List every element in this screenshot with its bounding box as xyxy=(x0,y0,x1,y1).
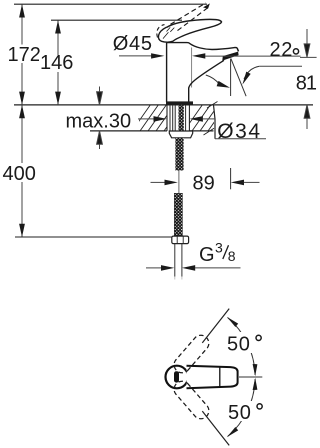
flexible hose xyxy=(174,193,183,236)
node 22deg leader curve xyxy=(244,66,259,79)
wire spout level line xyxy=(205,55,301,57)
arrow 22deg leader xyxy=(242,72,250,85)
svg-text:50: 50 xyxy=(228,402,251,424)
lever handle top edge xyxy=(166,19,221,27)
dashed lever position up xyxy=(174,335,209,373)
dashed raised lever line 1 xyxy=(171,3,206,24)
node nut facets xyxy=(177,236,183,243)
arrow D34 right xyxy=(190,116,203,122)
hex nut G3/8 xyxy=(172,236,189,244)
node shank verticals in hole xyxy=(170,105,186,131)
dimension 172 line upper xyxy=(21,4,23,44)
svg-text:Ø45: Ø45 xyxy=(113,33,153,55)
arrow G38 left xyxy=(161,265,174,271)
aerator xyxy=(222,52,238,61)
arrow 81 bottom xyxy=(304,105,310,129)
dimension 89 left shaft xyxy=(151,181,165,183)
wire counter right break edge xyxy=(214,105,216,139)
arrow 400 top xyxy=(19,105,25,118)
wire counter bottom line right xyxy=(189,130,213,132)
arrow D34 left xyxy=(154,116,167,122)
arrow 89 right xyxy=(231,180,244,186)
svg-text:3: 3 xyxy=(215,240,223,256)
wire D34 label underline xyxy=(215,138,266,140)
label 50deg bottom xyxy=(227,401,267,421)
node body right extension line xyxy=(191,48,193,88)
arrow swivel arc down inner xyxy=(253,378,258,390)
node swivel ray up xyxy=(202,309,229,343)
svg-text:22: 22 xyxy=(270,39,293,61)
arrow 172 bottom xyxy=(19,92,25,105)
wire top reference line (172 level) xyxy=(14,3,207,5)
node swivel arc up xyxy=(228,318,256,376)
arrow 81 top xyxy=(304,29,310,57)
lever handle underside xyxy=(173,22,222,41)
dimension D34 right shaft xyxy=(203,118,215,120)
node 22deg left arc xyxy=(206,75,220,84)
wire 146 reference line xyxy=(51,19,182,21)
lever top view end cap line xyxy=(219,367,221,387)
arrow max30 bottom xyxy=(97,131,103,149)
node swivel ray down xyxy=(202,411,229,445)
wire G38 label underline xyxy=(195,267,241,269)
node butt shading strokes xyxy=(163,27,174,38)
wire mounting surface line xyxy=(14,104,313,106)
node break marks crossing counter edge xyxy=(204,102,218,136)
label 146 xyxy=(39,55,75,72)
threaded shank below locknut xyxy=(175,138,183,171)
arrow 400 bottom xyxy=(19,224,25,237)
arrow D45 left xyxy=(151,53,164,58)
svg-text:8: 8 xyxy=(228,248,236,264)
locknut under counter xyxy=(169,131,192,138)
faucet base gasket xyxy=(166,101,193,105)
arrow 22deg left arc xyxy=(217,81,230,88)
threaded shank through counter xyxy=(179,105,184,131)
lever top view bar xyxy=(187,366,238,389)
faucet body right edge lower xyxy=(188,88,190,103)
svg-text:89: 89 xyxy=(193,173,215,195)
node counter hatching left xyxy=(132,105,183,132)
dimension D45 left shaft xyxy=(119,55,152,57)
label 172 xyxy=(6,45,41,63)
wire centerline right xyxy=(239,376,262,378)
dimension 400 line lower xyxy=(21,182,23,237)
spout underside curve xyxy=(189,60,224,88)
svg-text:Ø34: Ø34 xyxy=(217,120,262,143)
node hole edge right xyxy=(188,105,190,131)
dashed raised lever butt arc xyxy=(157,25,165,38)
wire 81 top tick xyxy=(300,56,317,58)
svg-text:172: 172 xyxy=(8,44,41,66)
label 50deg top xyxy=(226,332,266,353)
arrow swivel arc down outer xyxy=(227,427,238,437)
dimension 89 right shaft xyxy=(244,181,260,183)
dimension G38 left shaft xyxy=(146,267,161,269)
node axis extension line xyxy=(178,171,180,194)
faucet body top edge xyxy=(167,42,187,44)
node swivel arc down xyxy=(228,379,256,437)
spout top edge xyxy=(187,43,237,50)
svg-text:81: 81 xyxy=(296,73,317,95)
svg-text:400: 400 xyxy=(3,163,36,185)
svg-text:50: 50 xyxy=(227,334,250,356)
lever top view circle xyxy=(166,366,189,389)
arrow 146 top xyxy=(55,20,61,33)
wire 22deg label underline xyxy=(259,65,302,67)
node hole edge left xyxy=(166,105,168,131)
svg-text:146: 146 xyxy=(40,52,73,74)
dimension 400 line upper xyxy=(21,105,23,163)
lever top view dark slot xyxy=(174,371,179,382)
dimension 146 line lower xyxy=(57,71,59,105)
node tube fade end xyxy=(175,277,182,280)
node counter hatching right xyxy=(184,105,227,132)
arrow 172 top xyxy=(19,4,25,17)
arrow G38 right xyxy=(182,265,195,271)
spout tip face xyxy=(237,48,239,52)
dimension D34 left shaft xyxy=(138,118,154,120)
dashed raised lever line 2 xyxy=(178,7,210,31)
svg-text:G: G xyxy=(199,244,215,266)
arrow 146 bottom xyxy=(55,92,61,105)
node 22deg vertical ray upper xyxy=(230,59,232,96)
arrow D45 right xyxy=(192,53,205,58)
node 22deg angled ray xyxy=(231,59,246,97)
dimension 172 line lower xyxy=(21,63,23,105)
faucet body left edge xyxy=(166,43,168,102)
dashed lever position down xyxy=(174,381,209,419)
arrow max30 top xyxy=(97,87,103,105)
supply tube xyxy=(175,244,182,277)
svg-text:max.30: max.30 xyxy=(66,110,132,132)
dimension 146 line upper xyxy=(57,20,59,55)
wire 400 bottom reference line xyxy=(15,236,172,238)
arrow swivel arc up inner xyxy=(253,364,258,376)
dashed raised lever tip xyxy=(203,3,210,8)
arrow swivel arc up outer xyxy=(227,317,238,327)
wire counter bottom line left xyxy=(90,130,167,132)
arrow 89 left xyxy=(165,180,178,186)
lever handle butt xyxy=(158,27,173,42)
label 400 xyxy=(1,163,39,182)
node 22deg vertical ray lower xyxy=(230,168,232,189)
